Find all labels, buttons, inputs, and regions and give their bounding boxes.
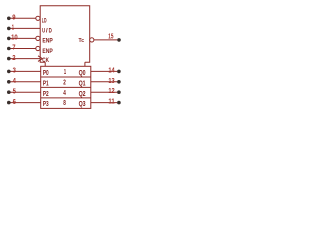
junction dot pin 2 — [7, 57, 11, 61]
svg-text:Q2: Q2 — [79, 89, 86, 98]
wire pin 10 ENP — [10, 37, 36, 39]
wire pin 15 Tc — [94, 39, 117, 41]
junction dot pin 11 — [117, 101, 121, 105]
junction dot pin 10 — [7, 37, 11, 41]
wire pin 14 Q0 — [91, 70, 117, 72]
wire connector left between sections — [44, 62, 46, 66]
junction dot pin 6 — [7, 101, 11, 105]
svg-text:6: 6 — [13, 99, 16, 106]
IC U1 top box (control section) — [40, 6, 89, 62]
svg-text:7: 7 — [12, 45, 15, 52]
svg-text:Q3: Q3 — [79, 99, 86, 108]
svg-text:2: 2 — [12, 55, 15, 62]
svg-text:1: 1 — [12, 25, 14, 32]
junction dot pin 5 — [7, 90, 11, 94]
svg-text:U: U — [42, 28, 45, 35]
svg-text:CK: CK — [42, 57, 49, 64]
junction dot pin 3 — [7, 70, 11, 74]
svg-text:P3: P3 — [43, 99, 49, 108]
svg-text:11: 11 — [108, 97, 114, 106]
IC U1 bottom box (register section) — [41, 66, 91, 108]
svg-text:5: 5 — [13, 88, 16, 95]
row divider 2 — [41, 86, 91, 88]
wire pin 2 CK — [10, 58, 40, 60]
wire pin 3 P0 — [10, 70, 40, 72]
junction dot pin 13 — [117, 80, 121, 84]
junction dot pin 15 — [117, 38, 121, 42]
wire pin 6 P3 — [10, 102, 40, 104]
inversion bubble pin 15 Tc — [90, 38, 94, 42]
svg-text:ENP: ENP — [42, 38, 53, 45]
svg-text:4: 4 — [63, 88, 66, 97]
wire pin 12 Q2 — [91, 91, 117, 93]
wire pin 4 P1 — [10, 81, 40, 83]
wire pin 11 Q3 — [91, 102, 117, 104]
wire pin 13 Q1 — [91, 81, 117, 83]
junction dot pin 9 — [7, 17, 11, 21]
wire pin 9 LD — [10, 17, 36, 19]
wire pin 7 ENP — [10, 48, 36, 50]
wire connector right between sections — [84, 62, 86, 66]
inversion bubble pin 10 — [36, 36, 40, 40]
row divider 1 — [41, 76, 91, 78]
junction dot pin 1 — [7, 27, 11, 31]
svg-text:4: 4 — [13, 78, 16, 85]
svg-text:Q0: Q0 — [79, 68, 86, 77]
svg-text:12: 12 — [108, 86, 114, 95]
svg-text:2: 2 — [63, 77, 66, 86]
svg-text:ENP: ENP — [42, 48, 53, 55]
svg-text:3: 3 — [13, 68, 16, 75]
junction dot pin 4 — [7, 80, 11, 84]
svg-text:8: 8 — [63, 98, 66, 107]
inversion bubble pin 7 — [36, 46, 40, 50]
svg-text:15: 15 — [108, 31, 113, 40]
svg-text:LD: LD — [42, 18, 47, 25]
wire pin 1 U/D — [10, 27, 40, 29]
clock wedge CK — [38, 56, 42, 62]
svg-text:10: 10 — [11, 35, 18, 42]
wire pin 5 P2 — [10, 91, 40, 93]
svg-text:P1: P1 — [43, 78, 49, 87]
svg-text:Q1: Q1 — [79, 78, 86, 87]
inversion bubble pin 9 — [36, 16, 40, 20]
svg-text:14: 14 — [108, 65, 115, 74]
svg-text:P2: P2 — [43, 89, 49, 98]
svg-text:9: 9 — [12, 15, 15, 22]
svg-text:D: D — [49, 28, 52, 35]
svg-text:P0: P0 — [43, 68, 49, 77]
svg-text:/: / — [46, 28, 48, 35]
svg-text:1: 1 — [64, 67, 67, 76]
junction dot pin 14 — [117, 70, 121, 74]
svg-text:13: 13 — [108, 76, 114, 85]
junction dot pin 7 — [7, 47, 11, 51]
junction dot pin 12 — [117, 90, 121, 94]
svg-text:Tc: Tc — [79, 38, 85, 44]
row divider 3 — [41, 97, 91, 99]
